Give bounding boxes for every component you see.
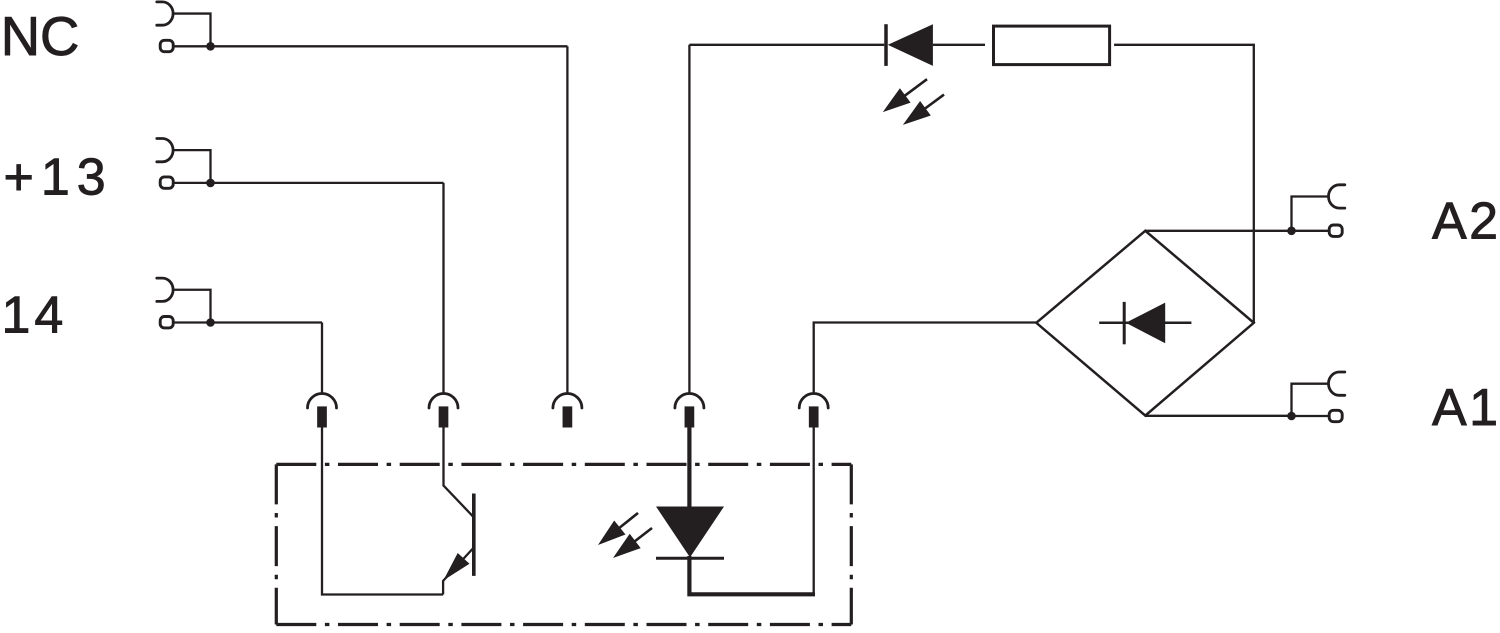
opto LED D2 cathode lead (thick) (689, 556, 815, 594)
opto LED D2 anode lead (thick) (687, 428, 691, 509)
wire NC vertical down to pin 3 (566, 46, 568, 393)
wire bridge top corner to A2 (1145, 230, 1288, 232)
terminal 14 link wire (173, 290, 210, 323)
pin 2 plug arc (429, 394, 458, 409)
opto LED D2 light arrow 1 shaft (614, 513, 638, 533)
optocoupler module dash-dot box right edge (850, 464, 853, 624)
svg-text:NC: NC (1, 6, 80, 67)
LED D1 light arrow 1 shaft (899, 79, 927, 100)
pin 3 plug arc (553, 394, 582, 409)
wire 14 vertical down to pin 1 (321, 323, 323, 393)
pin 5 plug arc (799, 394, 828, 409)
opto LED D2 cathode bar (656, 557, 724, 560)
wire 14 horizontal to pin 1 (173, 321, 322, 323)
phototransistor Q1 body bar (472, 494, 476, 576)
svg-text:+13: +13 (4, 149, 113, 207)
svg-text:A2: A2 (1432, 193, 1500, 251)
terminal +13 clamp hook (157, 139, 173, 162)
opto LED D2 light arrow 1 head (598, 521, 626, 546)
svg-text:14: 14 (2, 286, 68, 344)
terminal A2 clamp hook (1329, 185, 1345, 208)
bridge diode cathode bar (1123, 302, 1126, 344)
LED D1 light arrow 1 head (883, 88, 911, 112)
opto LED D2 triangle (656, 507, 724, 558)
terminal 14 clamp hook (157, 278, 173, 301)
wire pin 1 down and across to emitter (322, 428, 443, 595)
wire pin 5 down to cathode lead (813, 428, 815, 595)
wire +13 vertical down to pin 2 (442, 183, 444, 393)
terminal A1 link wire (1292, 384, 1329, 416)
phototransistor Q1 emitter lead (443, 548, 474, 595)
wire bridge left corner to pin 5 (814, 323, 1037, 393)
wire A1 junction to socket (1292, 415, 1330, 417)
terminal +13 link wire (173, 150, 210, 183)
LED D1 light arrow 2 shaft (919, 95, 944, 113)
wire LED net horizontal (top) (689, 44, 884, 46)
optocoupler module dash-dot box bottom edge (276, 623, 851, 626)
LED D1 triangle (888, 24, 933, 66)
pin 1 plug arc (308, 394, 337, 409)
node A2 junction (1287, 227, 1296, 236)
terminal A2 socket circle (1329, 225, 1342, 236)
terminal NC clamp hook (157, 2, 173, 25)
wire bridge bottom corner to A1 (1145, 415, 1288, 417)
pin 3 contact blade (563, 406, 573, 427)
terminal NC socket circle (160, 40, 173, 51)
pin 5 contact blade (809, 406, 819, 427)
wire resistor to right corner and down to bridge (1114, 45, 1254, 323)
terminal A1 socket circle (1329, 410, 1342, 421)
pin 4 plug arc (675, 394, 704, 409)
terminal A2 link wire (1292, 197, 1329, 231)
wire NC horizontal to pin 3 (173, 45, 567, 47)
pin 1 contact blade (317, 406, 327, 427)
wire LED to resistor (933, 44, 985, 46)
opto LED D2 light arrow 2 head (613, 534, 641, 558)
terminal 14 socket circle (160, 317, 173, 328)
bridge diode triangle (1126, 303, 1165, 344)
node +13 junction (206, 179, 215, 188)
LED D1 light arrow 2 head (903, 101, 931, 125)
bridge diode lead line (1099, 322, 1191, 325)
node 14 junction (206, 318, 215, 327)
terminal NC link wire (173, 14, 210, 47)
svg-text:A1: A1 (1432, 379, 1500, 437)
bridge rectifier diamond (1036, 231, 1254, 416)
opto LED D2 light arrow 2 shaft (629, 528, 652, 546)
wire A2 junction to socket (1292, 230, 1330, 232)
LED D1 cathode bar (884, 24, 888, 66)
node NC junction (206, 42, 215, 51)
node A1 junction (1287, 412, 1296, 421)
resistor R1 body (994, 26, 1110, 65)
wire LED net vertical down to pin 4 (688, 45, 690, 393)
terminal +13 socket circle (160, 177, 173, 188)
wire +13 horizontal to pin 2 (173, 182, 443, 184)
pin 4 contact blade (685, 406, 695, 427)
phototransistor Q1 emitter arrow head (443, 553, 469, 580)
pin 2 contact blade (439, 406, 449, 427)
optocoupler module dash-dot box left edge (275, 464, 278, 624)
terminal A1 clamp hook (1328, 372, 1344, 395)
phototransistor Q1 collector lead (444, 428, 474, 518)
optocoupler module dash-dot box top edge (276, 463, 851, 466)
